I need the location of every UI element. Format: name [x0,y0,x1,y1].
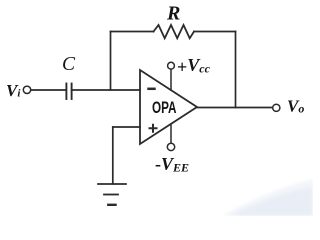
svg-text:-VEE: -VEE [155,154,189,175]
svg-text:+Vcc: +Vcc [177,55,211,77]
svg-text:Vi: Vi [6,81,21,100]
svg-text:R: R [166,3,180,25]
svg-text:Vo: Vo [287,97,304,116]
svg-text:OPA: OPA [152,99,177,117]
svg-text:C: C [62,54,76,75]
